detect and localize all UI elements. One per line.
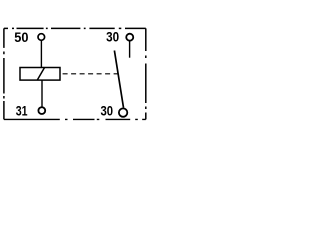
svg-text:30: 30 (101, 102, 114, 118)
svg-text:50: 50 (14, 29, 28, 45)
svg-text:30: 30 (106, 29, 119, 45)
svg-text:31: 31 (16, 102, 28, 118)
